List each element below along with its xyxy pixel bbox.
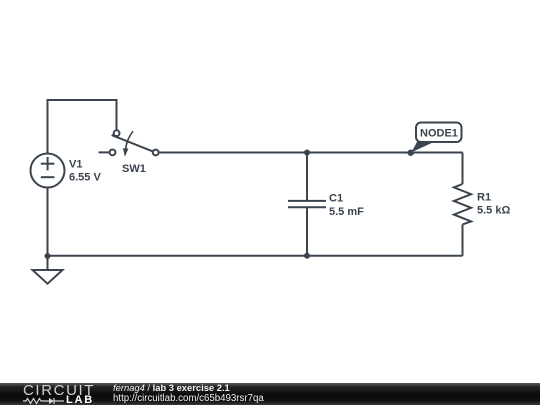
CircuitLab logo wordmark — [23, 382, 95, 399]
wire V1 bottom — [47, 188, 49, 257]
svg-text:6.55 V: 6.55 V — [69, 172, 101, 184]
svg-text:NODE1: NODE1 — [420, 128, 458, 140]
wire top-left loop (V1 top to switch) — [48, 100, 117, 154]
svg-text:SW1: SW1 — [122, 163, 146, 175]
label V1 value — [69, 159, 101, 184]
switch SW1 — [99, 130, 159, 157]
footer bar — [0, 383, 540, 405]
ground — [33, 256, 63, 284]
wire bottom net — [48, 255, 463, 257]
svg-text:R1: R1 — [477, 192, 491, 204]
svg-text:5.5 mF: 5.5 mF — [329, 206, 364, 218]
label R1 value — [477, 192, 510, 217]
wire resistor bottom — [462, 224, 464, 255]
svg-text:C1: C1 — [329, 193, 343, 205]
junction dot C1 top — [304, 150, 310, 156]
voltage source V1 — [31, 154, 65, 188]
CircuitLab logo resistor-diode glyph — [23, 397, 65, 405]
label SW1 — [122, 163, 146, 175]
node NODE1 flag — [412, 123, 462, 153]
svg-text:5.5 kΩ: 5.5 kΩ — [477, 205, 510, 217]
footer url text — [113, 393, 264, 404]
resistor R1 — [454, 184, 471, 224]
junction dot C1 bottom — [304, 253, 310, 259]
wire switch to right corner (top net) — [159, 152, 463, 154]
svg-text:V1: V1 — [69, 159, 82, 171]
junction dot ground node — [45, 253, 51, 259]
capacitor C1 — [288, 153, 326, 256]
wire right branch down to resistor — [462, 153, 464, 185]
CircuitLab logo LAB — [66, 394, 94, 406]
junction dot NODE1 — [408, 150, 414, 156]
footer title text — [113, 382, 230, 393]
label C1 value — [329, 193, 364, 219]
